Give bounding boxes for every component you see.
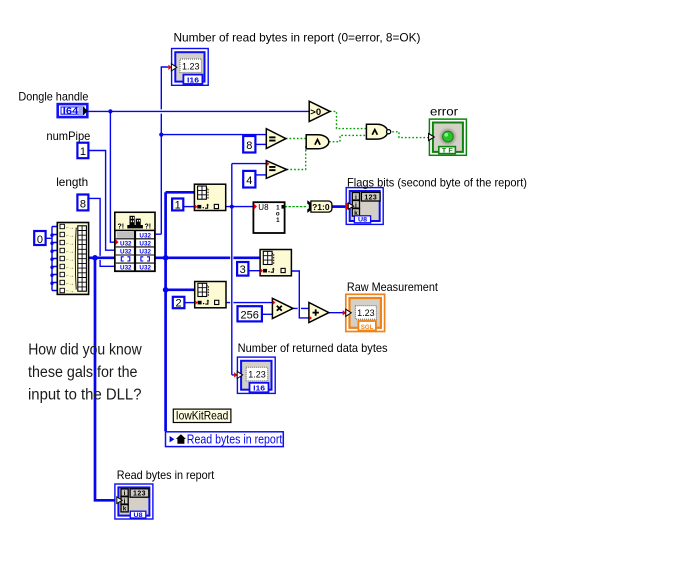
junction dots on build-array input column [50, 234, 53, 237]
svg-text:Number of read bytes in report: Number of read bytes in report (0=error,… [174, 30, 421, 44]
svg-text:1: 1 [276, 217, 280, 224]
svg-text:U32: U32 [139, 232, 151, 239]
constant 3 (index) [237, 262, 248, 276]
svg-text:··→: ··→ [66, 265, 74, 271]
?1:0 boolean-to-number node [307, 200, 332, 213]
index array node 1 [194, 184, 225, 210]
constant 256 [238, 306, 262, 321]
svg-text:?!: ?! [145, 224, 152, 231]
constant 0 [34, 231, 45, 246]
coercion dot DLL param2 [116, 239, 119, 244]
svg-text:1.23: 1.23 [248, 370, 266, 380]
wire DLL row1 output up to indicator and =8 [155, 67, 168, 234]
wire length constant to DLL node param5 [89, 198, 116, 266]
comparator >0 [309, 101, 330, 121]
svg-text:i: i [355, 194, 357, 201]
svg-text:I16: I16 [187, 77, 199, 84]
Dongle handle I64 control terminal [58, 104, 88, 117]
error boolean LED indicator [429, 119, 467, 155]
wire =8 output to AND gate [286, 138, 306, 140]
svg-text:··→: ··→ [66, 281, 74, 287]
wire multiply output to add [293, 307, 309, 309]
svg-text:I16: I16 [253, 386, 265, 393]
svg-text:··→: ··→ [66, 273, 74, 279]
svg-text:U32: U32 [120, 240, 132, 247]
wire branch to equals-8 comparator [161, 134, 266, 136]
wire add output to Raw Measurement [329, 312, 346, 314]
U8 number-to-boolean-array box [253, 202, 284, 233]
svg-text:4: 4 [246, 175, 252, 187]
svg-text:?!: ?! [118, 224, 125, 231]
svg-text:8: 8 [246, 140, 252, 152]
svg-text:these gals for the: these gals for the [28, 364, 138, 381]
Number of returned data bytes indicator (I16) [234, 357, 275, 393]
svg-text:i: i [124, 490, 126, 497]
wire 256 constant to multiply [262, 313, 273, 315]
free label How did you know [28, 341, 142, 403]
AND gate [306, 135, 329, 149]
wire constant 1 to index array 1 [183, 206, 194, 208]
wire 0 constant to build array inputs [46, 227, 52, 291]
wire >0 output to NAND gate [330, 111, 366, 128]
junction dot row1-output branch [159, 133, 163, 137]
svg-text:1: 1 [175, 200, 181, 212]
svg-text:Number of returned data bytes: Number of returned data bytes [238, 341, 388, 355]
svg-text:length: length [56, 175, 88, 189]
wire array branch down to Read bytes in report indicator (thick) [95, 258, 116, 501]
wire array branch to index array 1 and 2 and local variable (thick) [166, 192, 195, 431]
svg-text:8: 8 [80, 198, 86, 210]
svg-text:Dongle handle: Dongle handle [18, 90, 88, 104]
svg-text:··→: ··→ [66, 249, 74, 255]
svg-text:123: 123 [364, 194, 377, 201]
svg-text:U32: U32 [120, 249, 132, 256]
svg-text:··→: ··→ [66, 257, 74, 263]
svg-text:··→: ··→ [66, 225, 74, 231]
Read bytes in report indicator (U8 array, bottom) [115, 484, 153, 519]
wire index array 2 output to multiply [226, 302, 273, 304]
Flags bits indicator (U8 array) [345, 188, 383, 225]
svg-text:2: 2 [176, 298, 182, 310]
svg-text:1: 1 [80, 146, 86, 158]
svg-text:error: error [430, 104, 458, 118]
constant 1 (numPipe) [77, 143, 88, 159]
wire constant 3 to index array 3 [248, 270, 260, 272]
wire index array 1 output to U8 box, =4 and indicator [226, 164, 267, 375]
constant 2 (index) [173, 297, 185, 310]
constant 4 (compare) [243, 171, 255, 188]
DLL building icon [127, 216, 143, 229]
svg-text:j: j [354, 202, 357, 209]
parameter cells [116, 231, 154, 270]
svg-text:input to the DLL?: input to the DLL? [28, 387, 142, 404]
wire AND output to NAND gate [329, 135, 366, 141]
svg-text:Raw Measurement: Raw Measurement [347, 280, 439, 294]
svg-text:U32: U32 [139, 265, 151, 272]
wire Dongle handle branch down to DLL node param2 [110, 111, 115, 242]
svg-text:U32: U32 [139, 240, 151, 247]
wire NAND output to error indicator [392, 132, 429, 138]
junction dot array wire at x165 row4 [163, 255, 169, 261]
svg-text:How did you know: How did you know [28, 341, 142, 358]
svg-text:U8: U8 [134, 512, 143, 519]
junction dot array wire at x165 index2 [163, 287, 169, 293]
svg-text:1.23: 1.23 [357, 308, 375, 318]
svg-text:j: j [123, 498, 126, 505]
svg-text:?1:0: ?1:0 [312, 202, 330, 212]
add node [309, 303, 329, 323]
svg-text:U32: U32 [139, 249, 151, 256]
constant 8 (compare) [243, 136, 255, 153]
wire index array 3 output to add [291, 271, 309, 318]
wire ?1:0 output to Flags bits indicator (thick) [332, 205, 346, 208]
svg-text:256: 256 [241, 309, 259, 321]
Raw Measurement indicator (SGL) [343, 294, 385, 331]
junction dot build array output [92, 255, 98, 261]
wire build array output to DLL array param and index arrays (thick) [89, 256, 261, 259]
wire Dongle handle to >0 comparator [89, 110, 310, 112]
svg-text:1.23: 1.23 [182, 61, 200, 71]
index array node 3 [260, 250, 291, 276]
svg-text:IowKitRead: IowKitRead [176, 409, 229, 423]
svg-text:SGL: SGL [361, 324, 374, 331]
index array node 2 [195, 282, 226, 308]
wire U8 box output to ?1:0 (boolean array) [285, 206, 308, 208]
Call Library Function node (DLL) [115, 212, 155, 271]
svg-text:Read bytes in report: Read bytes in report [117, 468, 215, 482]
svg-text:numPipe: numPipe [46, 129, 90, 143]
svg-text:>0: >0 [310, 107, 321, 118]
svg-text:U8: U8 [258, 203, 269, 212]
svg-text:k: k [123, 506, 127, 513]
svg-text:··→: ··→ [66, 289, 74, 295]
comparator =8 [266, 129, 286, 149]
build array node (9 inputs) [57, 223, 88, 295]
svg-text:Read bytes in report: Read bytes in report [187, 432, 283, 446]
svg-text:0: 0 [37, 234, 43, 246]
junction dot index1 output [230, 205, 234, 209]
wire 8 constant to equals-8 [256, 143, 266, 145]
svg-text:T F: T F [442, 148, 453, 155]
svg-text:··→: ··→ [66, 233, 74, 239]
svg-text:U32: U32 [120, 265, 132, 272]
comparator =4 [266, 161, 287, 179]
multiply node [272, 298, 293, 318]
svg-text:··→: ··→ [66, 241, 74, 247]
constant 1 (index) [172, 199, 183, 212]
Number of read bytes indicator (I16) [168, 49, 208, 86]
svg-text:3: 3 [240, 264, 246, 276]
wire numPipe constant to DLL node param3 [89, 151, 116, 251]
wire 4 constant to equals-4 [256, 174, 266, 176]
NAND gate [366, 124, 390, 139]
svg-text:U8: U8 [358, 217, 367, 224]
junction dot on dongle wire [108, 109, 112, 113]
IowKitRead label [173, 409, 231, 423]
svg-text:Flags bits (second byte of the: Flags bits (second byte of the report) [347, 175, 527, 189]
svg-text:123: 123 [133, 491, 146, 498]
wire =4 output to AND gate [287, 145, 307, 170]
Read bytes in report local variable [166, 432, 284, 447]
svg-text:I64: I64 [63, 106, 79, 116]
wire constant 2 to index array 2 [184, 302, 195, 304]
constant 8 (length) [77, 195, 88, 211]
